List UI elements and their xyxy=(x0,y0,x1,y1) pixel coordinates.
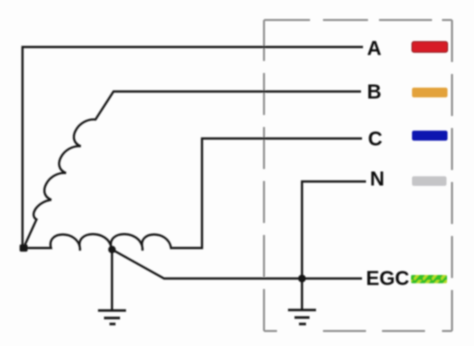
svg-text:A: A xyxy=(367,38,381,60)
svg-text:N: N xyxy=(370,168,384,190)
svg-text:B: B xyxy=(367,82,381,104)
svg-text:C: C xyxy=(368,128,382,150)
svg-text:EGC: EGC xyxy=(366,268,409,290)
